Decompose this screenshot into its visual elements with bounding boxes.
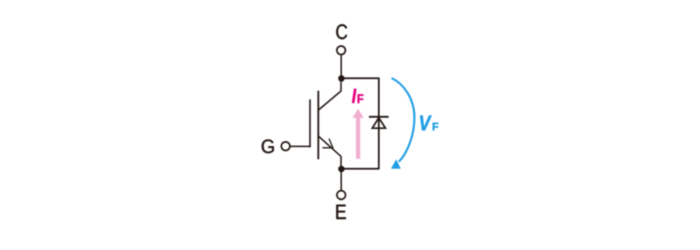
- wire C terminal to collector node: [340, 55, 342, 76]
- current arrow IF (pink): [353, 109, 364, 159]
- IGBT Q1 collector lead: [319, 78, 342, 110]
- terminal label E: [336, 205, 345, 219]
- wire gate: [290, 145, 310, 147]
- terminal C circle: [337, 46, 346, 55]
- IGBT Q1 gate bar: [309, 99, 311, 147]
- terminal E circle: [337, 191, 346, 200]
- IGBT Q1 channel bar: [317, 91, 319, 159]
- diode D1 cathode bar: [369, 116, 389, 118]
- IGBT Q1 emitter lead with arrow: [319, 136, 342, 169]
- terminal G circle: [281, 142, 290, 151]
- node emitter junction: [338, 166, 345, 173]
- label IF: [352, 89, 363, 103]
- IGBT Q1 emitter arrowhead: [322, 139, 333, 148]
- wire top rail to diode branch: [341, 77, 379, 79]
- label VF: [420, 116, 438, 131]
- wire emitter node to E terminal: [340, 169, 342, 190]
- node collector junction: [338, 75, 345, 82]
- terminal label C: [336, 24, 347, 39]
- wire diode branch vertical: [378, 78, 380, 169]
- terminal label G: [262, 139, 274, 153]
- wire bottom rail to diode branch: [341, 168, 379, 170]
- diode D1 triangle: [372, 118, 385, 129]
- voltage arc VF (blue): [391, 78, 414, 169]
